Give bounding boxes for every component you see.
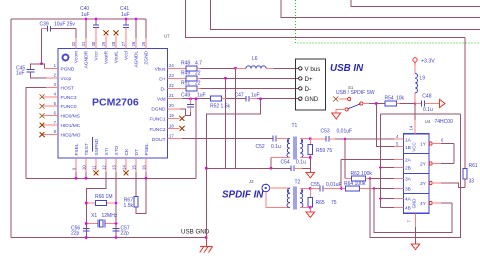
svg-text:R59 75: R59 75: [316, 148, 332, 154]
svg-text:Vbus: Vbus: [155, 67, 167, 73]
wire pin 3 HOST: [46, 86, 58, 88]
wire U4 GND pin 7: [415, 213, 417, 227]
svg-text:3A: 3A: [405, 177, 412, 183]
svg-text:DOUT: DOUT: [152, 137, 166, 143]
svg-text:4B: 4B: [405, 206, 411, 212]
svg-text:FUNC1: FUNC1: [150, 117, 166, 123]
svg-text:29: 29: [101, 41, 106, 46]
capacitor C55: [310, 182, 341, 191]
svg-text:22p: 22p: [71, 231, 80, 237]
svg-text:HOST: HOST: [61, 85, 74, 91]
svg-text:1uF: 1uF: [81, 12, 90, 18]
svg-text:+3.3V: +3.3V: [421, 59, 435, 65]
wire T2 right winding top / node: [300, 188, 310, 190]
wire pin 16 PSEL: [145, 158, 147, 172]
svg-text:USB IN: USB IN: [330, 63, 364, 74]
wire select col (2B/4A/4B): [380, 114, 382, 208]
capacitor C41: [120, 6, 130, 49]
svg-text:L6: L6: [252, 56, 258, 62]
node USB GND junction: [205, 236, 208, 239]
wire net W1 to R61: [186, 0, 466, 38]
wire 2Y output: [429, 162, 432, 165]
wire net W2: [211, 0, 480, 30]
wire 4Y wrap to 3B: [374, 189, 452, 233]
node S1/R54 junction: [375, 102, 378, 105]
off-page arrow (SPDIF select out): [440, 99, 446, 107]
svg-text:0,01uF: 0,01uF: [337, 129, 353, 135]
svg-text:HID1/MC: HID1/MC: [61, 123, 81, 129]
svg-text:24: 24: [169, 63, 174, 68]
svg-text:R65: R65: [316, 200, 325, 206]
svg-text:XTI: XTI: [104, 148, 110, 155]
U4 gate labels: [405, 138, 427, 212]
svg-text:USB / SPDIF SW: USB / SPDIF SW: [336, 90, 375, 96]
switch S1 USB/SPDIF: [333, 85, 385, 113]
pin 4 FUNC3 (nc): [43, 96, 58, 98]
pin numbers left side: [54, 63, 57, 134]
svg-text:R61: R61: [469, 163, 478, 169]
wire net A: [206, 167, 291, 169]
wire pin 10 TEST: [85, 158, 87, 172]
pin 5 FUNC0 (nc): [43, 105, 58, 107]
pin 6 HID0/MS (nc): [43, 115, 58, 117]
pin numbers bottom (vertical): [72, 165, 147, 170]
svg-text:1uF: 1uF: [197, 93, 206, 99]
svg-text:D-: D-: [160, 87, 165, 93]
overline on SSPND: [92, 137, 94, 152]
svg-text:Vccp: Vccp: [61, 76, 72, 82]
wire pin 14 VCC: [414, 104, 416, 121]
svg-text:FUNC3: FUNC3: [61, 95, 77, 101]
svg-text:R66 1M: R66 1M: [95, 194, 113, 200]
wire GND bottom rail: [11, 237, 206, 239]
svg-text:30: 30: [91, 41, 96, 46]
svg-text:DT: DT: [134, 149, 140, 155]
pin 7 HID1/MC (nc): [43, 124, 58, 126]
pin 29 VoutR (nc): [105, 36, 107, 49]
svg-text:C49: C49: [181, 93, 190, 99]
resistor R61: [463, 38, 478, 188]
svg-text:1.5k: 1.5k: [124, 203, 134, 209]
wire pin 32 Vcom: [75, 29, 77, 38]
svg-text:HID2/MO: HID2/MO: [61, 133, 81, 139]
resistor R49: [168, 71, 201, 81]
wire 4Y output: [429, 202, 432, 205]
transformer T1: [287, 123, 303, 160]
svg-text:1uF: 1uF: [121, 12, 130, 18]
U4 pin numbers: [396, 125, 444, 222]
wire D+ col down: [225, 78, 227, 168]
svg-text:3B: 3B: [405, 187, 411, 193]
wire 1Y-2Y tie: [453, 144, 455, 164]
svg-text:V bus: V bus: [305, 66, 321, 73]
pin names bottom (vertical): [74, 138, 150, 155]
svg-text:10k: 10k: [396, 96, 405, 102]
wire 4A input: [381, 198, 395, 200]
pin names top (vertical): [74, 50, 150, 68]
capacitor C57: [113, 226, 130, 239]
svg-text:C55: C55: [311, 182, 320, 188]
svg-text:R64 100k: R64 100k: [344, 181, 366, 187]
wire 2A input: [341, 159, 394, 161]
inductor L6: [236, 56, 299, 68]
svg-text:18: 18: [169, 123, 174, 128]
wire net B (HOST/FSEL/TEST/PSEL tie): [26, 177, 196, 179]
svg-text:1Y: 1Y: [420, 142, 427, 148]
svg-text:4Y: 4Y: [420, 201, 427, 207]
wire GND col (to USB GND): [206, 99, 260, 238]
svg-text:Vccr: Vccr: [94, 51, 100, 61]
capacitor C54: [281, 160, 311, 172]
resistor R62: [345, 171, 372, 181]
svg-text:R52 1.5k: R52 1.5k: [210, 104, 231, 110]
svg-text:XTO: XTO: [114, 145, 120, 155]
svg-text:R48: R48: [181, 61, 190, 67]
svg-text:Vccl: Vccl: [124, 51, 130, 60]
svg-text:SPDIF IN: SPDIF IN: [222, 190, 264, 201]
svg-text:SSPND: SSPND: [94, 138, 100, 155]
svg-text:26: 26: [131, 41, 136, 46]
pin 8 HID2/MO (nc): [43, 134, 58, 136]
capacitor C48: [415, 94, 440, 114]
svg-text:USB GND: USB GND: [181, 229, 210, 236]
wire select feedback horiz: [381, 113, 461, 115]
svg-text:0.1u: 0.1u: [423, 107, 433, 113]
wire DOUT join to net B: [195, 99, 197, 179]
svg-text:AGNDR: AGNDR: [84, 50, 90, 68]
svg-text:21: 21: [169, 93, 174, 98]
svg-text:2A: 2A: [405, 158, 412, 164]
svg-text:20: 20: [169, 103, 174, 108]
pin numbers top (vertical): [71, 41, 146, 46]
svg-text:22p: 22p: [121, 231, 130, 237]
svg-text:14: 14: [409, 125, 414, 130]
svg-text:10uF 25v: 10uF 25v: [54, 22, 75, 28]
capacitor C53: [310, 129, 352, 142]
svg-text:J3: J3: [249, 179, 254, 184]
wire pin 17 DOUT to C52: [168, 138, 183, 140]
svg-text:AGNDL: AGNDL: [134, 51, 140, 68]
wire 1B input from S1: [376, 104, 394, 147]
inductor L9: [415, 65, 425, 104]
svg-text:2B: 2B: [405, 166, 411, 172]
svg-text:T1: T1: [292, 123, 298, 129]
connector J3: [249, 179, 290, 208]
wire select wrap to 3A: [370, 114, 461, 238]
wire pin 31 AGNDR to rail: [85, 19, 87, 38]
svg-text:D+: D+: [305, 76, 313, 83]
ground at U4: [411, 244, 420, 250]
wire AGND left rail: [10, 19, 12, 238]
svg-text:22: 22: [195, 71, 201, 77]
svg-text:R49: R49: [181, 71, 190, 77]
svg-text:25: 25: [141, 41, 146, 46]
svg-text:Vdd: Vdd: [157, 97, 166, 103]
capacitor C39: [40, 22, 77, 32]
svg-text:C47: C47: [235, 93, 244, 99]
svg-text:T2: T2: [295, 180, 301, 186]
svg-text:0,01uF: 0,01uF: [326, 182, 342, 188]
svg-text:D-: D-: [305, 86, 312, 93]
wire T1 right winding bottom: [300, 157, 310, 159]
resistor R67: [124, 178, 146, 213]
wire pin 15 DT to R67: [135, 158, 137, 172]
wire Vbus to L6: [201, 67, 236, 69]
wire col C55 net up to 2A: [340, 160, 342, 189]
ground USB GND (earth symbol): [200, 238, 213, 253]
wire 1Y output: [429, 142, 432, 145]
capacitor C56: [71, 226, 90, 239]
pin names left side: [61, 66, 81, 138]
svg-text:PGND: PGND: [61, 66, 75, 72]
wire pin 26 AGNDL to rail: [135, 19, 137, 38]
wire T1 left winding bottom: [271, 157, 290, 159]
wire 2B input: [381, 167, 395, 169]
svg-text:PCM2706: PCM2706: [92, 97, 139, 109]
svg-text:2Y: 2Y: [420, 162, 427, 168]
wire GND row to USB: [257, 98, 299, 100]
wire 3B input: [374, 188, 394, 190]
svg-text:GND: GND: [411, 199, 416, 209]
svg-text:17: 17: [169, 133, 174, 138]
svg-text:D+: D+: [159, 77, 165, 83]
wire pin 9 FSEL: [75, 158, 77, 172]
svg-text:12MHz: 12MHz: [102, 213, 118, 219]
svg-text:R51: R51: [181, 81, 190, 87]
svg-text:ZGND: ZGND: [144, 50, 150, 64]
wire pin 13 XTO: [115, 158, 117, 172]
resistor R64: [340, 181, 375, 191]
wire Vbus col down: [235, 68, 237, 168]
svg-text:CK: CK: [124, 148, 130, 155]
node R54/L9 junction: [414, 102, 417, 105]
wire 4B input: [381, 207, 395, 209]
wire 3Y output: [429, 182, 432, 185]
capacitor C47: [226, 93, 260, 102]
svg-text:C53: C53: [321, 129, 330, 135]
svg-text:PSEL: PSEL: [144, 143, 150, 156]
pin numbers right side: [169, 63, 174, 138]
svg-text:1uF: 1uF: [251, 93, 260, 99]
wire D+ to USB: [201, 77, 299, 79]
svg-text:C54: C54: [281, 160, 290, 166]
svg-text:DGND: DGND: [151, 107, 166, 113]
IC U7 PCM2706 body: [58, 34, 170, 159]
svg-text:74HC00: 74HC00: [435, 119, 454, 125]
svg-text:C52: C52: [256, 144, 265, 150]
svg-text:X1: X1: [91, 213, 97, 219]
resistor R59: [308, 139, 332, 158]
svg-text:U7: U7: [164, 34, 170, 39]
wire pin 12 XTI: [105, 158, 107, 172]
wire net W4: [351, 0, 480, 6]
svg-text:31: 31: [81, 41, 86, 46]
svg-text:Vcom: Vcom: [74, 51, 80, 63]
capacitor C45: [16, 64, 58, 78]
transformer T2: [287, 180, 303, 210]
node PGND junction: [40, 62, 43, 65]
svg-text:3Y: 3Y: [420, 181, 427, 187]
svg-text:TEST: TEST: [84, 143, 90, 155]
pin 14 CK (nc): [125, 158, 127, 171]
resistor R51: [168, 81, 201, 91]
wire T1 right winding top / node: [300, 138, 310, 140]
wire col C53 net down to R62: [344, 139, 346, 179]
svg-text:1B: 1B: [405, 145, 411, 151]
wire T2 right winding bottom: [300, 207, 310, 209]
svg-text:4.7: 4.7: [195, 61, 202, 67]
wire pin 21 Vdd: [168, 98, 183, 100]
capacitor C40: [80, 6, 99, 49]
svg-text:75: 75: [331, 200, 337, 206]
resistor R54: [385, 96, 416, 107]
svg-text:R54: R54: [385, 96, 394, 102]
svg-text:L9: L9: [420, 76, 426, 82]
ground at T2: [306, 212, 315, 218]
resistor R65: [308, 189, 337, 208]
svg-text:22: 22: [169, 83, 174, 88]
crystal X1 12MHz: [85, 213, 118, 228]
svg-text:FUNC0: FUNC0: [61, 104, 77, 110]
svg-text:U4: U4: [425, 119, 431, 124]
svg-text:VCC: VCC: [411, 142, 416, 151]
svg-text:R62 100k: R62 100k: [351, 171, 373, 177]
IC U4 74HC00 body: [404, 119, 454, 213]
resistor R52: [210, 96, 231, 109]
svg-text:28: 28: [111, 41, 116, 46]
svg-text:VoutR: VoutR: [104, 50, 110, 64]
pin 28 VoutL (nc): [115, 36, 117, 49]
ground at T1: [306, 172, 315, 178]
svg-text:GND: GND: [305, 96, 319, 103]
ground at S1: [332, 113, 341, 119]
capacitor C52: [256, 136, 291, 150]
pin 19 FUNC1 (nc): [168, 117, 180, 119]
wire D- to USB: [201, 87, 299, 89]
svg-text:FUNC2: FUNC2: [150, 127, 166, 133]
svg-text:1uF: 1uF: [16, 71, 25, 77]
svg-text:0.1u: 0.1u: [271, 144, 281, 150]
wire net W3: [281, 0, 480, 18]
pin 18 FUNC2 (nc): [168, 128, 180, 130]
wire pin 25 ZGND rail corner: [145, 19, 147, 38]
svg-text:C39: C39: [40, 22, 49, 28]
highlighted net (green dashed): [295, 0, 480, 43]
connector J USB-B receptacle: [296, 59, 326, 110]
pin names right side: [150, 67, 167, 143]
svg-text:23: 23: [169, 73, 174, 78]
svg-text:FSEL: FSEL: [74, 143, 80, 155]
power +3.3V: [413, 58, 435, 65]
wire AGND top rail: [11, 18, 146, 20]
resistor R48: [168, 61, 203, 71]
wire pin 20 DGND to C49: [168, 108, 181, 110]
wire 1A input: [345, 138, 394, 140]
svg-text:22: 22: [195, 81, 201, 87]
svg-text:C48: C48: [422, 94, 431, 100]
wire node to pin 1 PGND: [42, 64, 45, 69]
svg-text:32: 32: [71, 41, 76, 46]
resistor R66: [85, 194, 118, 206]
pin 11 SSPND (nc): [95, 158, 97, 171]
wire 3A input: [370, 178, 394, 180]
svg-text:HID0/MS: HID0/MS: [61, 114, 80, 120]
svg-text:33: 33: [469, 179, 475, 185]
svg-text:0.1u: 0.1u: [296, 160, 306, 166]
svg-text:27: 27: [121, 41, 126, 46]
svg-text:VoutL: VoutL: [114, 51, 120, 64]
svg-text:19: 19: [169, 113, 174, 118]
wire C39 to PGND node: [41, 29, 43, 64]
capacitor C49: [181, 93, 206, 113]
